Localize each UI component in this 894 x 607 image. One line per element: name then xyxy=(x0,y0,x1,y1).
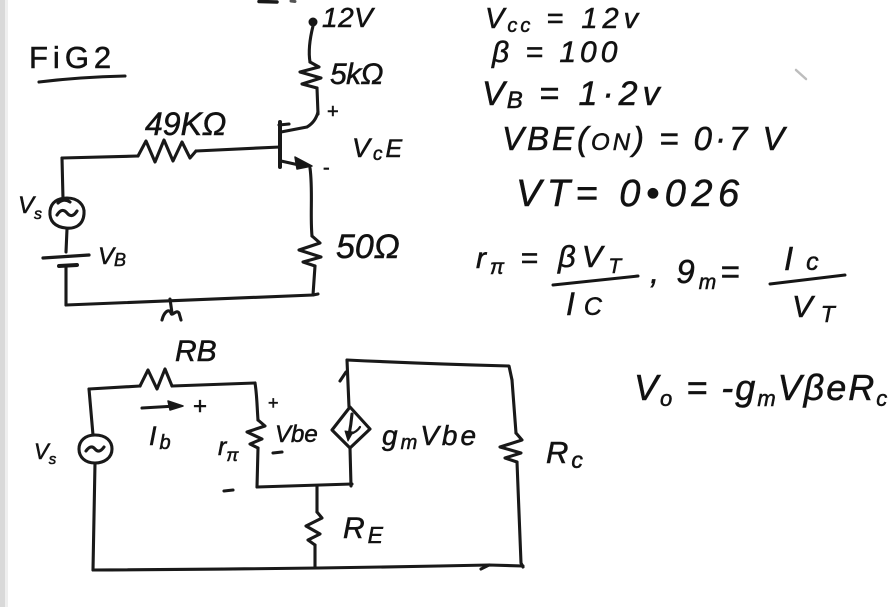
svg-text:VΤ= 0•026: VΤ= 0•026 xyxy=(516,173,745,215)
svg-text:+: + xyxy=(268,393,279,413)
svg-text:β = 100: β = 100 xyxy=(491,36,621,69)
svg-text:49KΩ: 49KΩ xyxy=(145,106,226,142)
svg-text:FiG2: FiG2 xyxy=(29,40,116,75)
svg-text:, 9m=: , 9m= xyxy=(650,253,743,294)
svg-text:50Ω: 50Ω xyxy=(336,228,400,266)
svg-text:+: + xyxy=(327,101,339,123)
svg-text:RB: RB xyxy=(175,335,217,368)
svg-text:Vbe: Vbe xyxy=(275,421,318,448)
svg-text:5kΩ: 5kΩ xyxy=(330,58,383,91)
svg-text:+: + xyxy=(193,393,207,420)
svg-text:-: - xyxy=(323,157,330,179)
svg-text:12V: 12V xyxy=(322,2,375,33)
svg-text:gmVbe: gmVbe xyxy=(382,420,479,454)
svg-text:rπ =: rπ = xyxy=(476,242,542,279)
svg-text:VBE(ON) = 0·7 V: VBE(ON) = 0·7 V xyxy=(502,120,788,157)
